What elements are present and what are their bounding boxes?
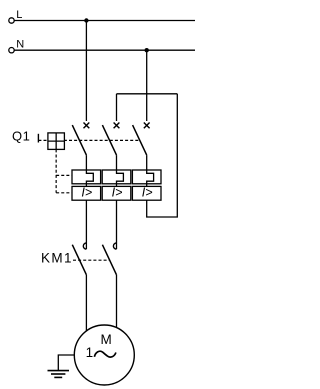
Q1 pole 3 magnetic trip cell — [132, 186, 161, 200]
Q1 mechanism dashed drop — [55, 149, 57, 192]
wire N bus — [14, 49, 195, 51]
wire KM1 pole 1 to motor — [85, 275, 87, 331]
Q1 pole 2 breaker function x — [114, 123, 120, 129]
Q1 pole 2 magnetic trip cell — [102, 186, 131, 200]
wire KM1 pole 2 to motor — [116, 275, 118, 328]
svg-text:I>: I> — [81, 186, 92, 200]
KM1 pole 2 moving contact — [102, 245, 116, 275]
Q1 trip dashed link — [38, 139, 139, 141]
wire pole 2 to KM1 — [116, 200, 118, 249]
wire L bus — [14, 20, 195, 22]
wire bypass bar to pole 3 bottom — [147, 94, 178, 217]
terminal L — [9, 18, 14, 23]
Q1 pole 1 thermal element — [86, 155, 93, 186]
motor tilde — [94, 351, 116, 357]
Q1 pole 3 moving contact — [133, 125, 147, 155]
Q1 pole 1 magnetic trip cell — [72, 186, 101, 200]
motor M1 circle — [74, 325, 134, 385]
wire Q1 pole 2 feed — [116, 94, 118, 121]
KM1 pole 1 contact arc — [83, 243, 86, 249]
KM1 pole 1 moving contact — [72, 245, 86, 275]
svg-text:M: M — [101, 332, 112, 347]
Q1 pole 2 moving contact — [102, 125, 116, 155]
svg-text:Q1: Q1 — [12, 128, 30, 143]
Q1 pole 2 thermal element — [117, 155, 124, 186]
KM1 dashed link — [73, 259, 110, 261]
svg-text:I>: I> — [142, 186, 153, 200]
svg-text:1: 1 — [86, 345, 94, 360]
Q1 pole 1 breaker function x — [84, 123, 90, 129]
wire motor to ground — [58, 355, 74, 370]
svg-text:I>: I> — [112, 186, 123, 200]
svg-text:N: N — [16, 39, 24, 51]
Q1 dashed branch to thermal row — [56, 174, 72, 176]
node N junction — [145, 48, 149, 52]
Q1 pole 3 thermal element — [147, 155, 154, 186]
wire pole 1 to KM1 — [85, 200, 87, 249]
Q1 pole 3 breaker function x — [144, 123, 150, 129]
svg-text:L: L — [16, 9, 22, 21]
ground — [48, 371, 70, 378]
wire N link bar — [117, 93, 178, 95]
Q1 pole 2 thermal cell — [102, 170, 131, 184]
Q1 pole 3 thermal cell — [132, 170, 161, 184]
Q1 dashed branch to magnetic row — [56, 192, 72, 194]
Q1 pole 1 thermal cell — [72, 170, 101, 184]
terminal N — [9, 48, 14, 53]
KM1 pole 2 contact arc — [113, 243, 116, 249]
node L junction — [84, 18, 88, 22]
Q1 operating mechanism square — [48, 133, 65, 150]
Q1 actuator tick — [37, 134, 39, 143]
wire L drop to Q1 pole 1 — [85, 21, 87, 122]
Q1 pole 1 moving contact — [72, 125, 86, 155]
wire N drop to Q1 pole 3 — [146, 50, 148, 121]
svg-text:KM1: KM1 — [41, 250, 73, 265]
